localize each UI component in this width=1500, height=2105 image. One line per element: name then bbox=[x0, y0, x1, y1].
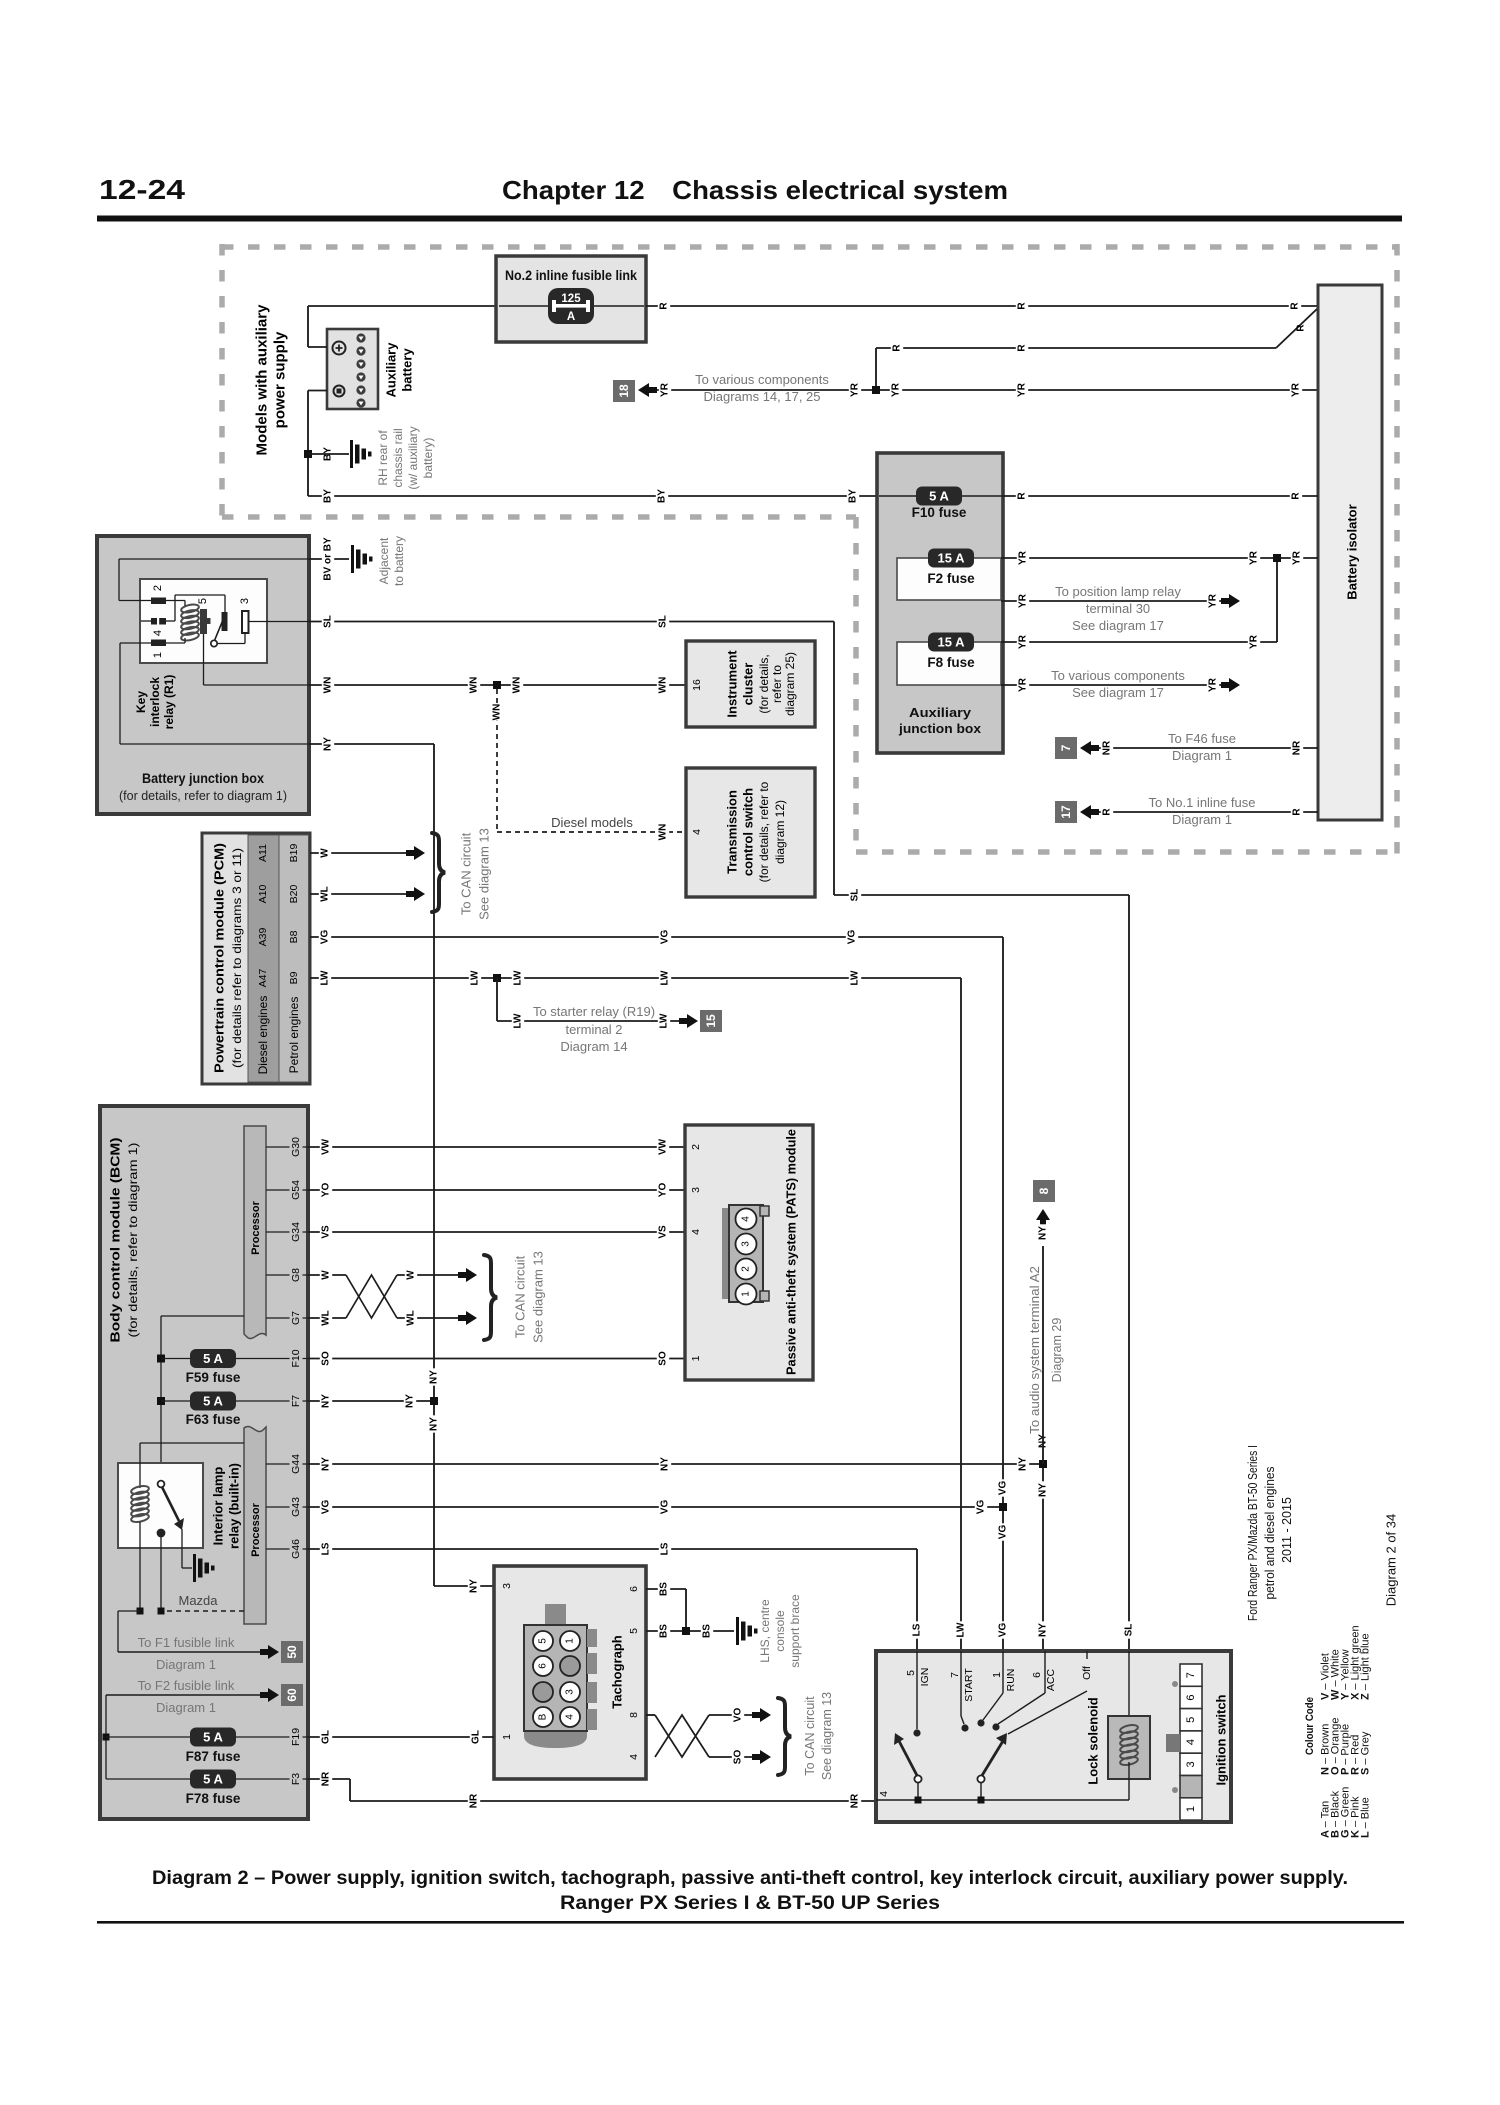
R1 wire: armature to terminal 3 bbox=[218, 633, 246, 644]
svg-text:YR: YR bbox=[1018, 634, 1029, 649]
svg-text:See diagram 13: See diagram 13 bbox=[531, 1251, 546, 1343]
svg-text:SL: SL bbox=[323, 615, 334, 628]
svg-text:LW: LW bbox=[320, 970, 331, 986]
wire WN (dashed): diesel models to transmission control switch bbox=[491, 689, 686, 841]
svg-text:START: START bbox=[963, 1668, 975, 1702]
svg-text:ACC: ACC bbox=[1045, 1668, 1057, 1691]
BCM wire: processor to F59/F63 fuses bbox=[161, 1316, 244, 1481]
PATS pin 2 bbox=[690, 1144, 702, 1150]
svg-text:Diesel engines: Diesel engines bbox=[256, 996, 270, 1075]
R1 terminal 5 bbox=[197, 598, 211, 634]
PCM pins A39/B8 bbox=[257, 928, 300, 947]
svg-text:VG: VG bbox=[998, 1481, 1009, 1496]
R1 wire: terminal 4 to fixed contact bbox=[141, 595, 225, 621]
svg-text:G54: G54 bbox=[290, 1180, 302, 1200]
svg-text:Mazda: Mazda bbox=[178, 1593, 218, 1608]
BCM pin G54 bbox=[266, 1178, 308, 1203]
wire R: to No.1 inline fuse (tag 17) bbox=[1055, 795, 1318, 827]
svg-text:NY: NY bbox=[660, 1457, 671, 1471]
svg-text:YO: YO bbox=[658, 1183, 669, 1198]
note: vehicle model bbox=[1246, 1445, 1294, 1621]
powertrain control module (PCM) bbox=[202, 833, 310, 1084]
svg-text:to battery: to battery bbox=[392, 536, 406, 586]
svg-text:Lock solenoid: Lock solenoid bbox=[1086, 1697, 1101, 1784]
svg-text:Powertrain control module (PCM: Powertrain control module (PCM) bbox=[212, 843, 227, 1073]
svg-text:1: 1 bbox=[501, 1734, 513, 1740]
svg-text:battery): battery) bbox=[421, 438, 435, 479]
wire WN: R1 terminal 5 to instrument cluster bbox=[309, 676, 686, 693]
svg-text:2: 2 bbox=[741, 1266, 752, 1272]
wire SO: BCM F10 to PATS pin 1 bbox=[308, 1350, 685, 1367]
svg-text:diagram 12): diagram 12) bbox=[773, 800, 787, 864]
svg-text:relay (built-in): relay (built-in) bbox=[227, 1463, 242, 1549]
svg-text:W: W bbox=[321, 1270, 332, 1280]
wire VG: BCM G43 to VG riser bbox=[308, 1498, 1007, 1515]
svg-text:See diagram 17: See diagram 17 bbox=[1072, 618, 1164, 633]
svg-text:LW: LW bbox=[850, 970, 861, 986]
svg-text:L – Blue: L – Blue bbox=[1360, 1797, 1372, 1838]
note: diagram number bbox=[1384, 1514, 1399, 1607]
ignition switch bbox=[876, 1651, 1231, 1822]
svg-text:SO: SO bbox=[321, 1351, 332, 1366]
svg-text:Tachograph: Tachograph bbox=[610, 1635, 625, 1708]
wire NY: BJB to tachograph pin 3 bbox=[309, 735, 494, 1594]
BJB wire: BV or BY feed bbox=[119, 559, 309, 601]
svg-text:To F1 fusible link: To F1 fusible link bbox=[138, 1635, 235, 1650]
ignition switch connector bbox=[1166, 1664, 1202, 1820]
svg-text:F10: F10 bbox=[290, 1349, 302, 1367]
svg-text:LW: LW bbox=[660, 970, 671, 986]
body control module (BCM) bbox=[100, 1106, 308, 1819]
svg-text:Ignition switch: Ignition switch bbox=[1214, 1694, 1229, 1785]
svg-text:NY: NY bbox=[1018, 1457, 1029, 1471]
tachograph bbox=[494, 1566, 646, 1779]
BCM pin G8 bbox=[266, 1266, 308, 1284]
caption line 2 bbox=[560, 1892, 940, 1914]
svg-text:Diagram 1: Diagram 1 bbox=[156, 1700, 216, 1715]
svg-text:3: 3 bbox=[565, 1689, 576, 1695]
ignition terminal Off bbox=[1008, 1651, 1093, 1734]
svg-text:3: 3 bbox=[690, 1187, 702, 1193]
svg-text:Battery isolator: Battery isolator bbox=[1345, 504, 1360, 599]
svg-text:YR: YR bbox=[1291, 382, 1302, 397]
junction WN bbox=[493, 681, 501, 689]
svg-text:R: R bbox=[1017, 302, 1028, 310]
R1 wire: terminal 2 to coil bbox=[166, 601, 185, 607]
svg-text:F78 fuse: F78 fuse bbox=[186, 1791, 241, 1806]
pin 4 (transmission control switch) bbox=[691, 829, 703, 835]
wire VO: tachograph pin 8 to CAN (twisted pair) bbox=[646, 1706, 771, 1757]
svg-text:G43: G43 bbox=[290, 1497, 302, 1517]
svg-text:WN: WN bbox=[658, 824, 669, 841]
tachograph pin 5 bbox=[628, 1628, 640, 1634]
svg-text:See diagram 13: See diagram 13 bbox=[820, 1692, 834, 1780]
wire W: BCM G8 to CAN (twisted pair) bbox=[308, 1268, 477, 1318]
svg-text:WL: WL bbox=[406, 1310, 417, 1326]
svg-text:VO: VO bbox=[733, 1708, 744, 1723]
svg-text:15: 15 bbox=[704, 1014, 718, 1028]
svg-text:To audio system terminal A2: To audio system terminal A2 bbox=[1028, 1266, 1042, 1434]
junction + ground: RH rear of chassis rail bbox=[304, 426, 435, 489]
svg-text:console: console bbox=[773, 1610, 787, 1652]
svg-text:GL: GL bbox=[471, 1730, 482, 1744]
svg-text:5 A: 5 A bbox=[203, 1351, 223, 1366]
ignition armature (ACC side) bbox=[977, 1733, 1007, 1800]
lock solenoid bbox=[1086, 1651, 1151, 1800]
svg-text:See diagram 13: See diagram 13 bbox=[477, 828, 492, 920]
svg-text:F2 fuse: F2 fuse bbox=[927, 571, 975, 586]
PATS pin 1 bbox=[690, 1355, 702, 1361]
tachograph pin 1 bbox=[501, 1734, 513, 1740]
svg-text:LW: LW bbox=[513, 1013, 524, 1029]
svg-text:A: A bbox=[567, 311, 575, 323]
svg-text:G30: G30 bbox=[290, 1137, 302, 1157]
svg-text:YR: YR bbox=[1208, 677, 1219, 692]
svg-text:125: 125 bbox=[561, 293, 581, 305]
junction LW bbox=[493, 974, 501, 982]
svg-text:LS: LS bbox=[321, 1542, 332, 1555]
BCM pin G43 bbox=[266, 1495, 308, 1520]
svg-text:7: 7 bbox=[1059, 744, 1073, 751]
svg-text:BY: BY bbox=[848, 489, 859, 503]
tachograph pin 6 bbox=[628, 1586, 640, 1592]
svg-text:LW: LW bbox=[659, 1013, 670, 1029]
svg-text:terminal 2: terminal 2 bbox=[565, 1022, 622, 1037]
PCM column: petrol engines bbox=[287, 997, 301, 1074]
R1 terminal 4 bbox=[151, 618, 166, 636]
R1 wire: terminal 5 to WN bbox=[204, 634, 310, 685]
svg-text:60: 60 bbox=[285, 1688, 299, 1702]
svg-text:NR: NR bbox=[850, 1793, 861, 1808]
header rule bbox=[97, 216, 1402, 222]
svg-text:YR: YR bbox=[1208, 593, 1219, 608]
svg-text:5 A: 5 A bbox=[929, 489, 949, 504]
svg-text:5: 5 bbox=[1185, 1717, 1197, 1723]
instrument cluster bbox=[686, 641, 815, 727]
svg-text:4: 4 bbox=[152, 630, 164, 636]
svg-text:5 A: 5 A bbox=[203, 1394, 223, 1409]
svg-text:YR: YR bbox=[850, 382, 861, 397]
svg-text:BY: BY bbox=[657, 489, 668, 503]
svg-text:F59 fuse: F59 fuse bbox=[186, 1370, 241, 1385]
wire YO: BCM G54 to PATS pin 3 bbox=[308, 1181, 685, 1198]
key interlock relay (R1) bbox=[134, 579, 267, 729]
svg-text:G8: G8 bbox=[290, 1268, 302, 1282]
wire SL: R1 terminal 3 to ignition switch LOCK bbox=[309, 613, 1135, 1651]
interior lamp relay coil bbox=[130, 1443, 244, 1611]
svg-text:BS: BS bbox=[702, 1624, 713, 1638]
svg-text:8: 8 bbox=[628, 1712, 640, 1718]
svg-text:NY: NY bbox=[321, 1394, 332, 1408]
R1 armature bbox=[211, 621, 223, 647]
svg-text:Z – Light blue: Z – Light blue bbox=[1360, 1633, 1372, 1700]
svg-text:WN: WN bbox=[512, 677, 523, 694]
svg-text:YR: YR bbox=[1249, 550, 1260, 565]
svg-text:4: 4 bbox=[565, 1714, 576, 1720]
interior lamp relay (built-in) bbox=[118, 1463, 242, 1549]
svg-text:NR: NR bbox=[1292, 740, 1303, 755]
svg-text:2: 2 bbox=[690, 1144, 702, 1150]
Mazda dashed wire bbox=[118, 1593, 244, 1615]
auxiliary battery bbox=[327, 329, 415, 409]
svg-text:15 A: 15 A bbox=[938, 635, 966, 650]
wire WL: BCM G7 to CAN (twisted pair) bbox=[308, 1309, 477, 1326]
ignition terminal 1 RUN bbox=[977, 1651, 1017, 1727]
svg-text:(for details, refer to: (for details, refer to bbox=[757, 781, 771, 882]
svg-text:Processor: Processor bbox=[250, 1502, 262, 1557]
svg-text:YR: YR bbox=[1017, 382, 1028, 397]
svg-text:F87 fuse: F87 fuse bbox=[186, 1749, 241, 1764]
fuse F8 (15 A) bbox=[897, 633, 1001, 686]
caption line 1 bbox=[152, 1867, 1348, 1889]
svg-text:1: 1 bbox=[690, 1355, 702, 1361]
svg-text:NY: NY bbox=[323, 737, 334, 751]
svg-text:1: 1 bbox=[1185, 1806, 1197, 1812]
svg-text:R: R bbox=[1017, 344, 1028, 352]
svg-text:1: 1 bbox=[152, 652, 164, 658]
svg-text:(for details, refer to diagram: (for details, refer to diagram 1) bbox=[126, 1143, 140, 1338]
tachograph pin 4 bbox=[628, 1754, 640, 1760]
svg-text:WN: WN bbox=[492, 704, 503, 721]
svg-text:5 A: 5 A bbox=[203, 1730, 223, 1745]
wire LW: branch to starter relay (tag 15) bbox=[497, 978, 722, 1054]
svg-text:6: 6 bbox=[1185, 1694, 1197, 1700]
svg-text:Diesel models: Diesel models bbox=[551, 815, 633, 830]
BCM pin G46 bbox=[266, 1537, 308, 1562]
BCM pin G7 bbox=[266, 1309, 308, 1327]
svg-text:F8 fuse: F8 fuse bbox=[927, 655, 975, 670]
svg-text:2011 - 2015: 2011 - 2015 bbox=[1280, 1497, 1294, 1563]
svg-text:4: 4 bbox=[691, 829, 703, 835]
svg-text:WN: WN bbox=[469, 677, 480, 694]
svg-text:3: 3 bbox=[741, 1241, 752, 1247]
wire R: fusible link to battery isolator bbox=[646, 300, 1318, 311]
wire NY: BCM G44 to ignition switch ACC bbox=[308, 1432, 1049, 1651]
svg-text:Processor: Processor bbox=[250, 1200, 262, 1255]
svg-text:NY: NY bbox=[1038, 1623, 1049, 1637]
svg-text:See diagram 17: See diagram 17 bbox=[1072, 685, 1164, 700]
svg-text:NY: NY bbox=[405, 1394, 416, 1408]
tachograph pin 8 bbox=[628, 1712, 640, 1718]
ignition terminal 6 ACC bbox=[992, 1651, 1057, 1731]
svg-text:R: R bbox=[1291, 492, 1302, 500]
svg-text:cluster: cluster bbox=[741, 663, 756, 706]
transmission control switch bbox=[686, 768, 815, 897]
svg-text:To No.1 inline fuse: To No.1 inline fuse bbox=[1149, 795, 1256, 810]
svg-text:VS: VS bbox=[658, 1225, 669, 1239]
svg-text:A10: A10 bbox=[257, 885, 269, 904]
fuse F87 (5 A) bbox=[103, 1725, 309, 1764]
svg-text:R: R bbox=[1292, 808, 1303, 816]
svg-text:LHS, centre: LHS, centre bbox=[758, 1599, 772, 1663]
BCM pin G44 bbox=[266, 1452, 308, 1477]
svg-text:(for details, refer to diagram: (for details, refer to diagram 1) bbox=[119, 788, 287, 803]
chapter heading bbox=[502, 175, 1008, 205]
svg-text:Diagram 1: Diagram 1 bbox=[156, 1657, 216, 1672]
svg-text:RH rear of: RH rear of bbox=[376, 430, 390, 486]
fuse F10 (5 A) bbox=[879, 487, 1003, 521]
svg-text:NY: NY bbox=[429, 1417, 440, 1431]
svg-text:control switch: control switch bbox=[741, 788, 756, 876]
svg-text:Diagram 1: Diagram 1 bbox=[1172, 748, 1232, 763]
fuse F63 (5 A) bbox=[157, 1392, 308, 1428]
svg-text:(w/ auxiliary: (w/ auxiliary bbox=[406, 426, 420, 489]
battery junction box bbox=[97, 536, 309, 814]
svg-text:To various components: To various components bbox=[695, 372, 829, 387]
svg-text:SO: SO bbox=[658, 1351, 669, 1366]
svg-text:(for details refer to diagrams: (for details refer to diagrams 3 or 11) bbox=[230, 848, 244, 1068]
CAN brace (tachograph) bbox=[778, 1692, 834, 1780]
svg-text:17: 17 bbox=[1059, 805, 1073, 819]
svg-text:Ranger PX Series I & BT-50 UP: Ranger PX Series I & BT-50 UP Series bbox=[560, 1892, 940, 1914]
wire NR: BCM F3 to ignition switch pin 4 bbox=[308, 1770, 876, 1809]
wire YR: to position lamp relay bbox=[1001, 584, 1240, 633]
svg-text:7: 7 bbox=[949, 1672, 961, 1678]
svg-text:NY: NY bbox=[469, 1579, 480, 1593]
svg-text:YR: YR bbox=[1292, 550, 1303, 565]
svg-text:WN: WN bbox=[658, 677, 669, 694]
R1 terminal 2 bbox=[151, 585, 166, 604]
wire BS: tachograph pin 5 to ground bbox=[646, 1594, 802, 1668]
svg-text:BS: BS bbox=[659, 1624, 670, 1638]
wire YR: F2 fuse to battery isolator bbox=[1001, 549, 1318, 566]
R1 coil bbox=[180, 603, 199, 642]
svg-text:power supply: power supply bbox=[272, 331, 289, 428]
caption rule bbox=[97, 1921, 1404, 1924]
svg-text:6: 6 bbox=[628, 1586, 640, 1592]
svg-text:R: R bbox=[1017, 492, 1028, 500]
svg-text:G44: G44 bbox=[290, 1454, 302, 1474]
wire YR: to various components (tag 18) bbox=[613, 372, 1318, 404]
svg-text:VG: VG bbox=[998, 1525, 1009, 1540]
svg-text:1: 1 bbox=[565, 1638, 576, 1644]
wire: battery positive to No.2 inline fusible link bbox=[308, 306, 496, 347]
svg-text:VG: VG bbox=[320, 930, 331, 945]
svg-text:G7: G7 bbox=[290, 1311, 302, 1325]
svg-text:Transmission: Transmission bbox=[725, 790, 740, 874]
svg-text:SL: SL bbox=[1124, 1624, 1135, 1637]
CAN brace (PCM) bbox=[432, 828, 492, 920]
ignition terminal 7 START bbox=[949, 1651, 975, 1732]
wire NY: BCM F7 to NY riser bbox=[308, 1392, 438, 1409]
junction NY / audio branch (tag 8) bbox=[1028, 1180, 1064, 1468]
svg-text:RUN: RUN bbox=[1005, 1669, 1017, 1692]
BCM pin G30 bbox=[266, 1135, 308, 1160]
svg-text:F10 fuse: F10 fuse bbox=[912, 505, 967, 520]
svg-text:WL: WL bbox=[320, 886, 331, 902]
svg-text:Body control module (BCM): Body control module (BCM) bbox=[108, 1138, 123, 1343]
svg-text:junction box: junction box bbox=[898, 721, 982, 736]
svg-text:Auxiliary: Auxiliary bbox=[384, 342, 399, 398]
svg-text:12-24: 12-24 bbox=[99, 174, 185, 205]
svg-text:VG: VG bbox=[998, 1623, 1009, 1638]
page number 12-24 bbox=[99, 174, 185, 205]
svg-text:Ford Ranger PX/Mazda BT-50 Ser: Ford Ranger PX/Mazda BT-50 Series I bbox=[1246, 1445, 1260, 1621]
svg-text:A39: A39 bbox=[257, 928, 269, 947]
svg-text:F63 fuse: F63 fuse bbox=[186, 1412, 241, 1427]
wire NR: to F46 fuse (tag 7) bbox=[1055, 731, 1318, 763]
R1 terminal 3 bbox=[239, 598, 251, 633]
passive anti-theft system (PATS) module bbox=[685, 1125, 813, 1380]
svg-text:terminal 30: terminal 30 bbox=[1086, 601, 1150, 616]
svg-text:VG: VG bbox=[660, 930, 671, 945]
svg-text:LS: LS bbox=[660, 1542, 671, 1555]
svg-text:2: 2 bbox=[152, 585, 164, 591]
wire W: PCM to CAN circuit bbox=[310, 846, 425, 860]
svg-text:R: R bbox=[1296, 324, 1307, 332]
svg-text:Chapter 12 Chassis electrical: Chapter 12 Chassis electrical system bbox=[502, 175, 1008, 205]
svg-text:petrol and diesel engines: petrol and diesel engines bbox=[1263, 1467, 1277, 1600]
wire VG: PCM to ignition switch RUN bbox=[310, 928, 1009, 1651]
ignition wire: pin 4 (NR) bbox=[876, 1791, 1129, 1804]
svg-text:VG: VG bbox=[321, 1500, 332, 1515]
wire BS: tachograph pin 6 bbox=[646, 1580, 686, 1631]
svg-text:NY: NY bbox=[1038, 1226, 1049, 1240]
svg-text:VG: VG bbox=[660, 1500, 671, 1515]
fuse F2 (15 A) bbox=[897, 549, 1001, 601]
svg-text:To position lamp relay: To position lamp relay bbox=[1055, 584, 1181, 599]
svg-text:4: 4 bbox=[628, 1754, 640, 1760]
ignition terminal 5 IGN bbox=[905, 1651, 931, 1737]
wire GL: BCM F19 to tachograph pin 1 bbox=[308, 1728, 494, 1745]
svg-text:WN: WN bbox=[323, 677, 334, 694]
wire: relay contact to ground bbox=[182, 1529, 215, 1582]
wire LS: BCM G46 to ignition switch IGN bbox=[308, 1540, 923, 1651]
svg-text:battery: battery bbox=[400, 348, 415, 392]
wire BV or BY with ground: adjacent to battery bbox=[309, 532, 406, 587]
label: Models with auxiliary power supply bbox=[254, 304, 289, 456]
svg-text:Adjacent: Adjacent bbox=[377, 537, 391, 584]
svg-text:5 A: 5 A bbox=[203, 1772, 223, 1787]
R1 terminal 1 bbox=[151, 640, 166, 659]
dashed border: models with auxiliary power supply region bbox=[222, 244, 1397, 855]
svg-text:SL: SL bbox=[658, 615, 669, 628]
PATS pin 4 bbox=[690, 1229, 702, 1235]
svg-text:LW: LW bbox=[956, 1622, 967, 1638]
svg-text:VS: VS bbox=[321, 1225, 332, 1239]
wire: to F2 fusible link (tag 60) bbox=[106, 1678, 303, 1779]
BCM pin G34 bbox=[266, 1220, 308, 1245]
svg-text:VG: VG bbox=[976, 1500, 987, 1515]
svg-text:BY: BY bbox=[323, 489, 334, 503]
svg-text:S – Grey: S – Grey bbox=[1360, 1731, 1372, 1775]
wire LW: PCM to ignition switch START bbox=[310, 969, 967, 1651]
svg-text:1: 1 bbox=[741, 1291, 752, 1297]
svg-text:Diagram 2 of 34: Diagram 2 of 34 bbox=[1384, 1514, 1399, 1607]
svg-text:GL: GL bbox=[321, 1730, 332, 1744]
svg-text:5: 5 bbox=[197, 598, 209, 604]
BJB wire: NY feed bbox=[120, 643, 309, 744]
wire R: F10 fuse to battery isolator bbox=[1003, 490, 1318, 501]
svg-text:7: 7 bbox=[1185, 1672, 1197, 1678]
svg-text:NY: NY bbox=[1038, 1483, 1049, 1497]
svg-text:Petrol engines: Petrol engines bbox=[287, 997, 301, 1074]
wire VW: BCM G30 to PATS pin 2 bbox=[308, 1138, 685, 1155]
svg-text:A11: A11 bbox=[257, 844, 269, 862]
svg-text:6: 6 bbox=[1031, 1672, 1043, 1678]
svg-text:YR: YR bbox=[1018, 593, 1029, 608]
svg-text:G34: G34 bbox=[290, 1222, 302, 1242]
svg-text:Diagrams 14, 17, 25: Diagrams 14, 17, 25 bbox=[703, 389, 820, 404]
svg-text:1: 1 bbox=[991, 1672, 1003, 1678]
svg-text:YO: YO bbox=[321, 1183, 332, 1198]
svg-text:R: R bbox=[659, 302, 670, 310]
svg-text:YR: YR bbox=[1018, 550, 1029, 565]
svg-text:To CAN circuit: To CAN circuit bbox=[513, 1255, 528, 1338]
PATS connector bbox=[722, 1205, 769, 1305]
svg-text:YR: YR bbox=[660, 382, 671, 397]
svg-text:YR: YR bbox=[1249, 634, 1260, 649]
